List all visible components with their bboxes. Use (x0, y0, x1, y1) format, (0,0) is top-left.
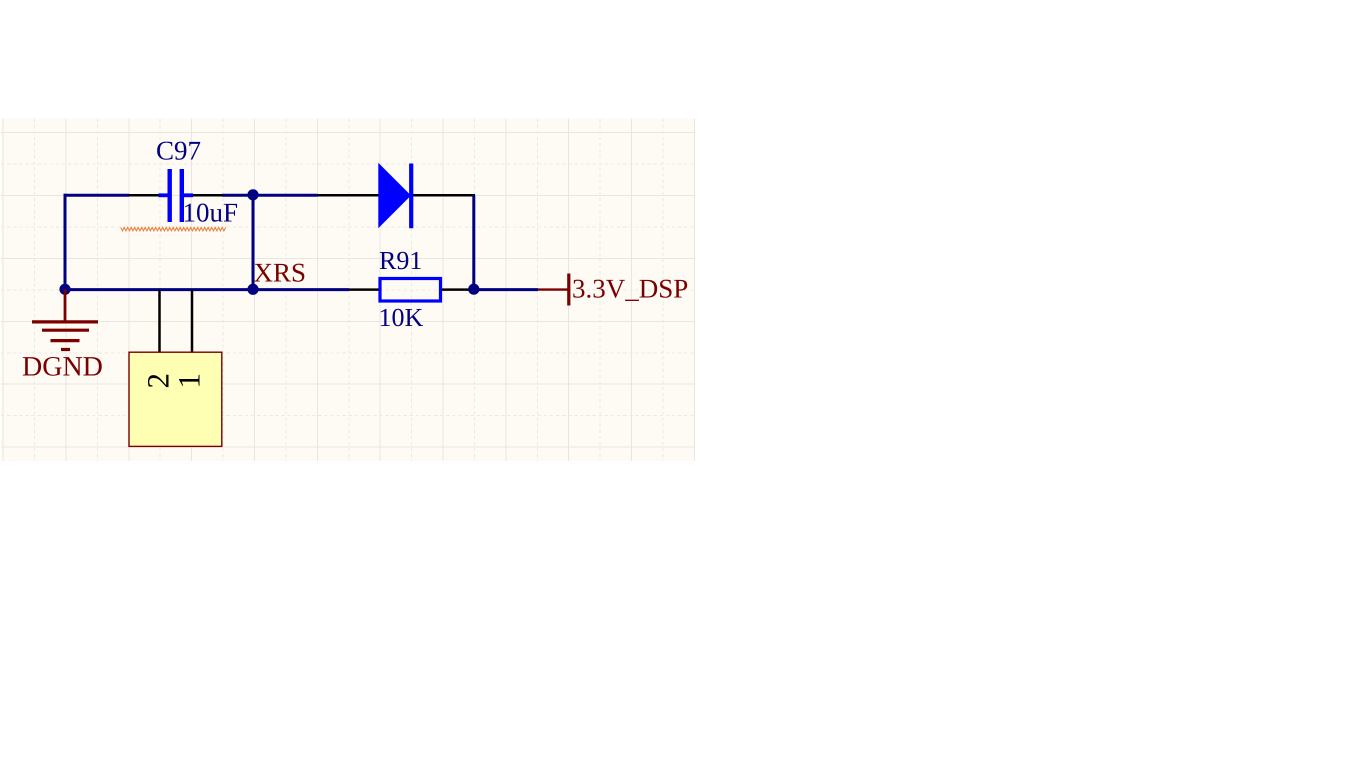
ground DGND bar 4 (61, 348, 70, 351)
connector pin 2 wire (black) (158, 290, 161, 353)
svg-text:2: 2 (141, 373, 176, 389)
svg-text:10uF: 10uF (183, 198, 239, 228)
connector body (yellow box) (129, 352, 222, 446)
svg-text:C97: C97 (156, 136, 201, 166)
svg-text:10K: 10K (379, 303, 424, 332)
svg-text:3.3V_DSP: 3.3V_DSP (572, 274, 688, 304)
schematic sheet background (1, 119, 695, 461)
wire: left vertical navy segment (64, 194, 67, 290)
resistor R91 pin 1 (black) (349, 288, 379, 291)
power port 3.3V_DSP bar (567, 274, 570, 306)
diode D triangle (378, 163, 411, 228)
ground DGND stub (64, 290, 67, 322)
ground DGND bar 3 (51, 339, 80, 342)
junction dot at (253,289) (247, 284, 258, 295)
svg-text:1: 1 (172, 373, 207, 389)
diode D cathode bar (409, 164, 413, 229)
wire: vertical navy segment XRS net from (253,195) to (253,289) (252, 195, 255, 289)
wire: top horizontal net, left navy segment (64, 194, 130, 197)
diode D anode pin (black) (318, 194, 380, 197)
junction dot at (473,289) (468, 284, 479, 295)
junction dot at (253,195) (247, 189, 258, 200)
capacitor C97 pin 2 (black) (192, 194, 222, 197)
capacitor C97 pin 1 (black) (129, 194, 160, 197)
junction dot at (65,289) (59, 284, 70, 295)
wire: navy segment from junction to power port (474, 288, 538, 291)
svg-text:XRS: XRS (254, 258, 307, 288)
resistor R91 pin 2 (black) (442, 288, 474, 291)
decorative grid (unlabeled) (2, 119, 4, 461)
ground DGND bar 2 (42, 329, 89, 332)
svg-text:DGND: DGND (22, 352, 103, 383)
connector pin 1 wire (black) (191, 290, 194, 353)
ground DGND bar 1 (32, 320, 98, 323)
wire: bottom horizontal navy segment from ground junction to resistor (64, 288, 350, 291)
power port 3.3V_DSP lead (maroon) (538, 288, 568, 290)
compile-error zigzag under 10uF (121, 227, 226, 231)
resistor R91 body (380, 279, 441, 302)
diode D cathode pin (black) (411, 194, 475, 197)
svg-text:R91: R91 (379, 246, 422, 275)
wire: right vertical navy segment (472, 195, 475, 289)
capacitor C97 plates (159, 169, 194, 222)
wire: top horizontal navy segment through junction at x=253 (222, 194, 318, 197)
